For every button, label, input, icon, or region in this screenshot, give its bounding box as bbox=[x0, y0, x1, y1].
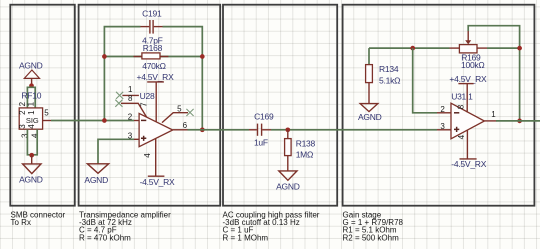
svg-text:1MΩ: 1MΩ bbox=[296, 149, 313, 159]
potentiometer wiper arrow R169 bbox=[465, 40, 471, 44]
svg-text:R138: R138 bbox=[296, 138, 316, 148]
ground AGND symbol (U28 +input) bbox=[87, 164, 108, 174]
junction dot output node bbox=[200, 127, 205, 132]
wire R169 right to junction bbox=[487, 47, 520, 49]
wire R134 top corner bbox=[368, 48, 370, 65]
capacitor C191 leads bbox=[141, 26, 150, 28]
frame box 1 (SMB connector section) bbox=[10, 5, 75, 206]
frame box 2 (transimpedance amplifier section) bbox=[79, 5, 221, 206]
svg-text:5: 5 bbox=[177, 104, 182, 113]
pin 7 lead (V+) bbox=[155, 82, 157, 122]
minus symbol U28 bbox=[141, 119, 146, 121]
op-amp U28 triangle bbox=[139, 113, 173, 146]
svg-text:2: 2 bbox=[128, 113, 133, 122]
svg-text:1: 1 bbox=[128, 85, 133, 94]
svg-text:+4.5V_RX: +4.5V_RX bbox=[137, 72, 175, 82]
svg-text:R134: R134 bbox=[379, 64, 399, 74]
resistor R169 lead left bbox=[450, 47, 460, 49]
svg-text:-4.5V_RX: -4.5V_RX bbox=[140, 177, 175, 187]
junction dot wiper/right bbox=[517, 46, 522, 51]
svg-text:4: 4 bbox=[457, 134, 466, 139]
resistor R168 leads bbox=[134, 56, 142, 58]
no-connect X pin 1 bbox=[116, 92, 123, 99]
pin 5 stub of RF10 bbox=[43, 120, 51, 122]
junction dot (top of RF10) bbox=[29, 83, 34, 88]
wire pins 1,2 of RF10 up to junction bbox=[27, 87, 35, 108]
wire pins 3,4 of RF10 down to junction bbox=[27, 129, 37, 155]
svg-text:1: 1 bbox=[27, 101, 36, 106]
wire pin3 to AGND bbox=[98, 139, 134, 164]
ground AGND symbol (R138) bbox=[279, 171, 297, 180]
svg-text:100kΩ: 100kΩ bbox=[461, 60, 485, 70]
pin 1 output stub bbox=[484, 120, 496, 122]
pin 2 stub bbox=[134, 120, 139, 122]
resistor R138 body bbox=[285, 139, 292, 156]
svg-text:U28: U28 bbox=[140, 91, 155, 101]
capacitor C169 plates bbox=[257, 124, 259, 136]
svg-text:8: 8 bbox=[128, 94, 133, 103]
wire C169 to U31 bbox=[271, 129, 437, 131]
power bar -4.5V_RX bbox=[148, 175, 165, 177]
op-amp U31 triangle bbox=[451, 103, 484, 139]
pin 3 stub bbox=[134, 138, 139, 140]
frame box 4 (gain stage section) bbox=[343, 5, 535, 206]
power bar +4.5V_RX bbox=[147, 81, 164, 83]
svg-text:To Rx: To Rx bbox=[11, 218, 31, 227]
frame box 3 (AC coupling section) bbox=[223, 5, 337, 206]
ground AGND symbol (R134) bbox=[360, 104, 378, 112]
pin 3 stub U31 bbox=[437, 129, 451, 131]
svg-text:6: 6 bbox=[183, 121, 188, 130]
plus symbol U31 bbox=[454, 127, 459, 132]
capacitor C169 leads bbox=[249, 129, 257, 131]
svg-text:R2 = 500 kOhm: R2 = 500 kOhm bbox=[343, 233, 400, 242]
svg-text:+4.5V_RX: +4.5V_RX bbox=[449, 74, 487, 84]
svg-text:4: 4 bbox=[27, 124, 36, 129]
svg-text:AGND: AGND bbox=[358, 112, 382, 122]
svg-text:AGND: AGND bbox=[84, 175, 108, 185]
plus symbol U28 bbox=[141, 136, 146, 141]
svg-text:AGND: AGND bbox=[19, 175, 43, 185]
svg-text:1: 1 bbox=[27, 110, 36, 115]
junction dot R138 node bbox=[285, 127, 290, 132]
svg-text:4: 4 bbox=[30, 133, 39, 138]
svg-text:4: 4 bbox=[143, 153, 152, 158]
pin 6 output stub bbox=[173, 129, 188, 131]
ground AGND symbol (top, pointing up) bbox=[24, 70, 39, 78]
resistor R168 body bbox=[142, 53, 160, 59]
junction dot feedback right top bbox=[200, 54, 205, 59]
svg-text:5.1kΩ: 5.1kΩ bbox=[379, 75, 400, 85]
svg-text:AGND: AGND bbox=[19, 60, 43, 70]
svg-text:R = 1 MOhm: R = 1 MOhm bbox=[223, 233, 269, 242]
svg-text:7: 7 bbox=[140, 102, 149, 107]
junction dot output bbox=[517, 119, 522, 124]
svg-text:SIG: SIG bbox=[26, 116, 39, 125]
resistor R134 lead bottom bbox=[368, 83, 370, 104]
connector RF10 body bbox=[19, 108, 42, 129]
svg-text:3: 3 bbox=[440, 122, 445, 131]
wiper wire up and over bbox=[468, 26, 519, 121]
svg-text:U31.1: U31.1 bbox=[451, 91, 473, 101]
junction dot (bottom of RF10) bbox=[29, 153, 34, 158]
pin 8 lead (V+) bbox=[466, 84, 468, 113]
output wire to right edge bbox=[496, 120, 540, 122]
power bar -4.5V_RX bbox=[460, 158, 477, 160]
output wire to AC coupling bbox=[188, 129, 250, 131]
resistor R169 lead right bbox=[477, 47, 487, 49]
pin 1 stub bbox=[122, 94, 138, 96]
resistor R138 lead top bbox=[287, 130, 289, 139]
resistor R134 body bbox=[366, 65, 373, 83]
pin 4 lead (V-) bbox=[155, 139, 157, 177]
resistor R169 body (potentiometer) bbox=[459, 45, 477, 53]
wire C191 top loop bbox=[104, 27, 202, 130]
svg-text:2: 2 bbox=[440, 105, 445, 114]
junction dot feedback left top bbox=[102, 54, 107, 59]
pin 5 stub with diagonal bbox=[162, 113, 188, 123]
pin 2 stub U31 bbox=[437, 112, 451, 114]
svg-text:5: 5 bbox=[44, 109, 49, 118]
capacitor C191 plates bbox=[149, 20, 151, 34]
svg-text:AGND: AGND bbox=[276, 182, 300, 192]
wire pin 2 branch down bbox=[413, 48, 437, 113]
power bar +4.5V_RX bbox=[458, 83, 473, 85]
junction dot input node bbox=[102, 118, 107, 123]
no-connect X pin 5 bbox=[186, 109, 193, 116]
svg-text:3: 3 bbox=[18, 124, 27, 129]
feedback wire row bbox=[369, 47, 450, 49]
svg-text:1: 1 bbox=[491, 110, 496, 119]
svg-text:RF10: RF10 bbox=[21, 91, 41, 101]
pin 8 stub with diagonal bbox=[121, 103, 147, 117]
svg-text:470kΩ: 470kΩ bbox=[142, 61, 166, 71]
wire R168 feedback row bbox=[104, 56, 202, 58]
resistor R138 lead bottom bbox=[287, 156, 289, 171]
svg-text:R = 470 kOhm: R = 470 kOhm bbox=[79, 233, 131, 242]
minus symbol U31 bbox=[454, 112, 459, 114]
svg-text:R168: R168 bbox=[143, 43, 163, 53]
main signal wire from RF10 pin5 to U28 pin 2 bbox=[51, 120, 134, 122]
wire stub to bottom ground bbox=[31, 155, 33, 164]
svg-text:8: 8 bbox=[457, 104, 466, 109]
wire stub from ground to junction bbox=[31, 78, 33, 86]
junction dot pin2 branch bbox=[410, 46, 415, 51]
svg-text:2: 2 bbox=[18, 110, 27, 115]
svg-text:C169: C169 bbox=[254, 111, 274, 121]
no-connect X pin 8 bbox=[115, 100, 122, 107]
ground AGND symbol (bottom) bbox=[23, 164, 41, 174]
svg-text:1uF: 1uF bbox=[254, 138, 268, 148]
svg-text:-4.5V_RX: -4.5V_RX bbox=[451, 159, 486, 169]
pin 4 lead (V-) bbox=[466, 130, 468, 159]
svg-text:C191: C191 bbox=[142, 8, 162, 18]
